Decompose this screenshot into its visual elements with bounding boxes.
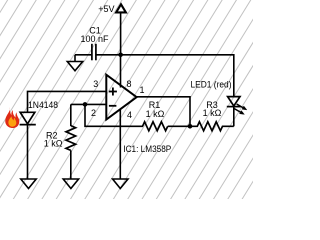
flame icon: [5, 107, 19, 128]
wire pin2 node: [71, 103, 107, 105]
svg-text:1: 1: [139, 85, 144, 95]
svg-text:+5V: +5V: [98, 4, 114, 14]
wire op-amp output to R1/R3 node: [137, 97, 190, 127]
wire pin3 input from diode: [28, 91, 107, 112]
op-amp U1 triangle: [106, 75, 136, 120]
resistor R2: [66, 126, 76, 151]
svg-text:1 kΩ: 1 kΩ: [146, 109, 165, 119]
diode D1 1N4148: [20, 112, 36, 124]
svg-text:2: 2: [91, 108, 96, 118]
ground (pin 4): [113, 179, 128, 189]
pin 4 stem to ground: [119, 109, 121, 180]
svg-text:1 kΩ: 1 kΩ: [203, 108, 222, 118]
svg-text:IC1: LM358P: IC1: LM358P: [123, 144, 171, 154]
wire R2 bottom to ground: [70, 150, 72, 179]
ground (R2): [63, 179, 78, 189]
wire +5V stem down to rail: [120, 13, 122, 55]
svg-text:1N4148: 1N4148: [28, 100, 58, 110]
svg-text:4: 4: [127, 110, 132, 120]
LED LED1: [227, 97, 247, 115]
wire R1 right to node: [168, 125, 190, 127]
ground (C1): [67, 55, 82, 71]
power +5V symbol: [98, 4, 126, 14]
svg-text:100 nF: 100 nF: [80, 34, 109, 44]
ground (D1): [21, 179, 36, 189]
capacitor C1: [92, 44, 96, 61]
op-amp minus input marker: [109, 105, 117, 107]
wire top rail right and down right side to LED anode: [121, 55, 234, 97]
node junction dot +5V rail: [118, 53, 123, 58]
wire feedback from pin2 node down and right to R1: [85, 104, 143, 126]
node junction dot R1/R3: [188, 124, 193, 129]
wire D1 cathode to ground: [27, 125, 29, 179]
svg-text:LED1 (red): LED1 (red): [191, 80, 232, 90]
wire R2 top: [70, 104, 72, 126]
svg-text:8: 8: [126, 79, 131, 89]
svg-text:3: 3: [93, 79, 98, 89]
wire C1 left plate to ground: [75, 54, 91, 56]
svg-text:1 kΩ: 1 kΩ: [44, 139, 63, 149]
wire LED cathode down to R3: [233, 107, 235, 127]
resistor R3: [190, 122, 234, 131]
pin 8 stem (V+): [120, 55, 122, 88]
op-amp plus input marker: [109, 88, 117, 96]
wire top rail left (node to C1): [96, 54, 121, 56]
node junction dot pin2: [83, 102, 88, 107]
resistor R1: [143, 122, 168, 131]
